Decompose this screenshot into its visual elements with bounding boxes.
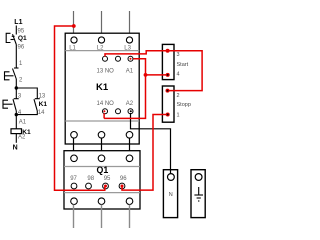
svg-text:3: 3: [177, 52, 180, 58]
terminal K1 L3: [126, 37, 132, 43]
divider Q1 top: [64, 166, 140, 168]
svg-text:95: 95: [18, 28, 25, 34]
terminal Q1 98: [86, 183, 92, 189]
terminal K1 A1: [128, 56, 133, 61]
divider K1 bottom: [65, 120, 139, 122]
wire K1 aux branch to merge node: [16, 111, 37, 115]
svg-text:A2: A2: [126, 101, 134, 107]
wire supply L1: [73, 11, 75, 38]
svg-text:14: 14: [38, 110, 45, 116]
svg-text:95: 95: [104, 176, 111, 182]
wire motor V: [101, 205, 103, 229]
contactor aux contact K1 13-14: [34, 99, 40, 111]
terminal K1 T1: [71, 132, 78, 139]
terminal K1 13NO: [103, 56, 108, 61]
svg-text:Q1: Q1: [18, 35, 27, 42]
terminal Stopp 1: [166, 113, 170, 117]
stop pushbutton NC S0: [5, 68, 19, 80]
wire red stub 14NO: [103, 113, 105, 118]
terminal Q1 97: [71, 183, 77, 189]
divider K1 top: [65, 50, 139, 52]
terminal K1 L2: [98, 37, 104, 43]
wire stop to branch node: [15, 79, 17, 99]
wire red A1 to Start 4 and 14NO: [104, 59, 145, 119]
node red dot Q1 96: [121, 185, 124, 188]
terminal K1 T2: [98, 132, 105, 139]
terminal block N: [163, 170, 177, 218]
terminal Q1 in1: [71, 155, 78, 162]
node red junction on L1: [72, 24, 76, 28]
svg-text:96: 96: [120, 176, 127, 182]
terminal block PE: [191, 170, 205, 218]
wire motor U: [73, 205, 75, 229]
node red junction A1 branch: [144, 73, 148, 77]
coil K1: [11, 129, 22, 134]
terminal Start 4: [166, 73, 170, 77]
svg-text:K1: K1: [96, 82, 109, 93]
node merge junction: [15, 113, 18, 116]
node red dot K1 14NO: [103, 110, 105, 112]
svg-text:Q1: Q1: [97, 165, 109, 175]
node red dot K1 A1: [130, 58, 132, 60]
wire red 13NO to Start 3: [105, 51, 202, 91]
svg-text:2: 2: [177, 93, 180, 99]
terminal Q1 out3: [126, 198, 133, 205]
svg-text:N: N: [13, 145, 18, 152]
terminal K1 14NO: [103, 109, 108, 114]
contactor K1 block: [65, 33, 139, 144]
button Stopp block: [162, 86, 174, 122]
svg-text:98: 98: [87, 176, 94, 182]
terminal Q1 out1: [71, 198, 78, 205]
svg-text:A1: A1: [19, 120, 27, 126]
svg-text:4: 4: [177, 72, 180, 78]
svg-text:97: 97: [70, 176, 77, 182]
wire A2 to N (black): [131, 113, 171, 174]
svg-text:A1: A1: [126, 68, 134, 74]
svg-text:L1: L1: [14, 19, 22, 26]
svg-text:Start: Start: [177, 62, 189, 68]
terminal PE screw: [195, 174, 202, 181]
terminal N screw: [168, 174, 175, 181]
svg-text:N: N: [169, 192, 173, 198]
wire branch to K1 aux contact: [16, 88, 37, 99]
wire from L1 to overload contact: [15, 26, 17, 35]
terminal K1 T3: [126, 132, 133, 139]
wire K1 T3 to Q1: [129, 138, 131, 155]
wire coil to N: [15, 134, 17, 143]
wire supply L2: [101, 11, 103, 38]
overload relay Q1 block: [64, 151, 140, 209]
wire motor W: [129, 205, 131, 229]
wire 96 to stop button: [15, 45, 17, 69]
svg-text:K1: K1: [39, 101, 48, 108]
start pushbutton NO S1: [3, 99, 19, 111]
terminal K1 L1: [71, 37, 77, 43]
node A2 dot: [130, 110, 132, 112]
svg-text:1: 1: [177, 113, 180, 119]
terminal Start 3: [166, 49, 170, 53]
overload relay NC contact Q1 95-96: [6, 33, 16, 44]
wire red branch to Start 4: [146, 74, 167, 76]
svg-text:96: 96: [18, 45, 25, 51]
wire supply L3: [129, 11, 131, 38]
svg-text:14 NO: 14 NO: [97, 101, 115, 107]
svg-text:A2: A2: [18, 135, 26, 141]
terminal Q1 96: [119, 183, 125, 189]
terminal Q1 in2: [98, 155, 105, 162]
terminal K1 (center bottom aux): [116, 109, 121, 114]
terminal K1 A2: [128, 109, 133, 114]
terminal Q1 in3: [126, 155, 133, 162]
terminal K1 (center top aux): [116, 56, 121, 61]
divider Q1 bottom: [64, 192, 140, 194]
terminal Q1 out2: [98, 198, 105, 205]
svg-text:13 NO: 13 NO: [97, 68, 115, 74]
button Start block: [162, 44, 174, 79]
wire red L1 tap to Q1 95: [55, 26, 105, 190]
wire red Q1 96 to Stopp 1: [122, 115, 166, 191]
ground: [194, 187, 203, 201]
svg-text:Stopp: Stopp: [177, 102, 191, 108]
terminal Q1 95: [103, 183, 109, 189]
wire start branch down: [15, 111, 17, 129]
node red dot Q1 95: [104, 185, 107, 188]
wire K1 T1 to Q1: [73, 138, 75, 155]
wire K1 T2 to Q1: [101, 138, 103, 155]
node branch junction: [15, 86, 18, 89]
terminal Stopp 2: [166, 89, 170, 93]
